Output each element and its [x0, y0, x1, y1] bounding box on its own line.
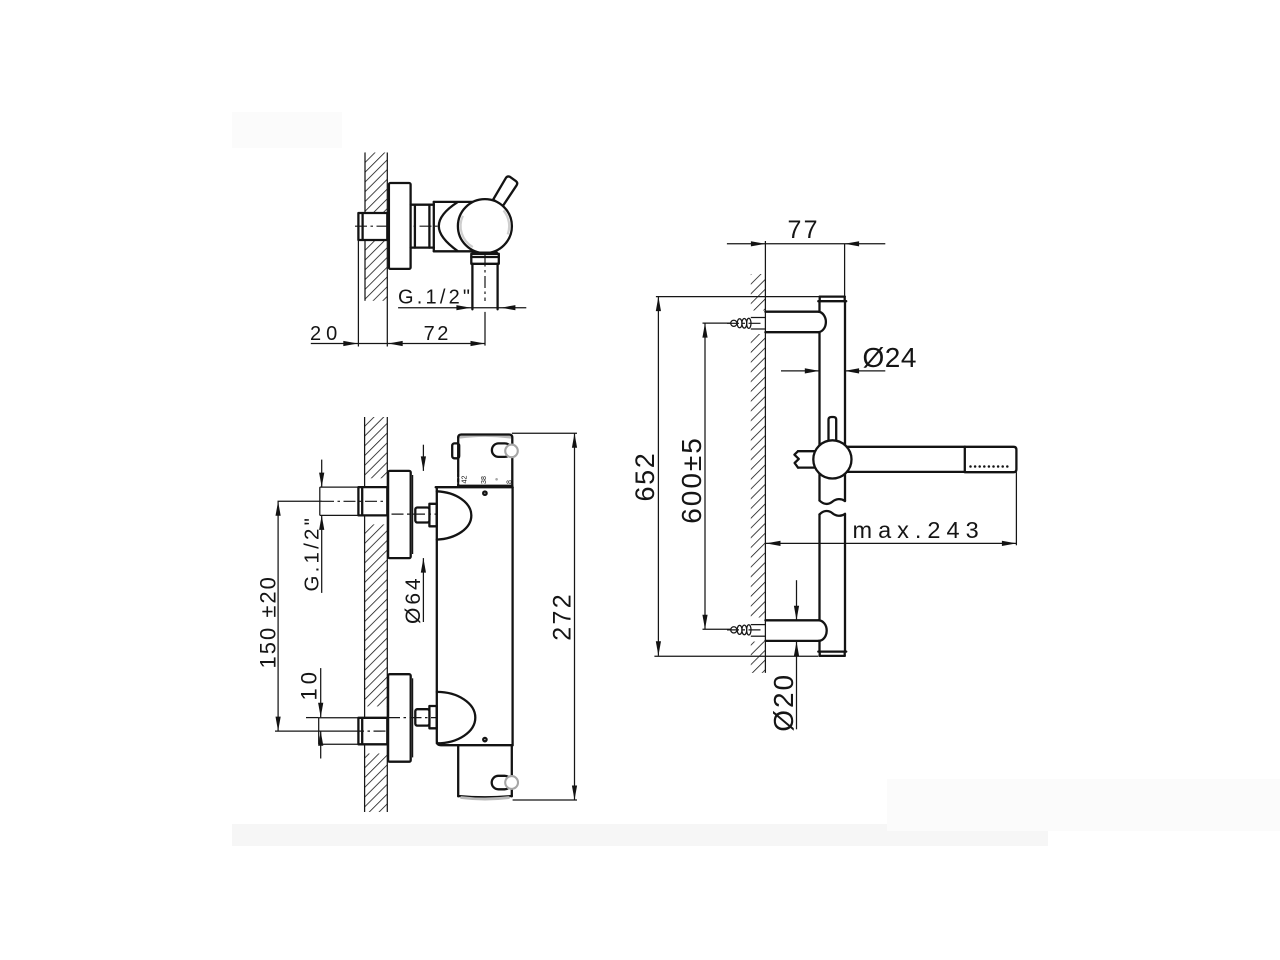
svg-text:Ø24: Ø24 [863, 342, 917, 373]
svg-text:38: 38 [479, 476, 488, 484]
svg-text:150 ±20: 150 ±20 [256, 575, 281, 668]
svg-text:G.1/2": G.1/2" [398, 287, 473, 309]
svg-text:Ø20: Ø20 [768, 673, 799, 732]
svg-text:652: 652 [630, 452, 660, 502]
svg-text:10: 10 [297, 668, 322, 700]
svg-text:Ø64: Ø64 [402, 575, 425, 624]
svg-text:G.1/2": G.1/2" [300, 515, 323, 592]
svg-text:42: 42 [459, 476, 468, 484]
svg-text:600±5: 600±5 [676, 436, 707, 524]
svg-text:8: 8 [505, 480, 514, 484]
svg-text:max.243: max.243 [853, 517, 985, 543]
svg-text:272: 272 [549, 592, 577, 641]
svg-text:77: 77 [788, 216, 820, 244]
svg-text:72: 72 [424, 323, 451, 345]
svg-text:20: 20 [310, 323, 342, 345]
